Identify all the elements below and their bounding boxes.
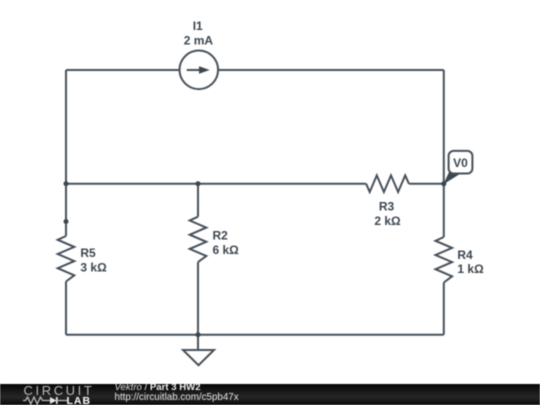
wire middle rail right of R3 <box>409 183 444 185</box>
wire left rail lower segment <box>65 282 67 335</box>
svg-text:2 mA: 2 mA <box>184 34 214 48</box>
junction dot node A (left rail / middle rail) <box>64 181 69 186</box>
current source I1 <box>180 51 219 90</box>
wire right rail lower segment <box>443 283 445 335</box>
svg-text:R2: R2 <box>213 228 229 242</box>
resistor R2 (vertical) <box>190 217 207 262</box>
svg-text:I1: I1 <box>193 19 203 33</box>
wire bottom rail <box>66 334 444 336</box>
wire ground stub <box>197 335 199 350</box>
footer title Vektro / Part 3 HW2 <box>115 382 201 393</box>
svg-text:R5: R5 <box>80 246 96 260</box>
svg-text:R4: R4 <box>457 248 473 262</box>
wire R2 top lead <box>197 184 199 217</box>
CircuitLab logo wordmark CIRCUIT <box>24 383 95 398</box>
svg-text:3 kΩ: 3 kΩ <box>80 261 107 275</box>
svg-text:1 kΩ: 1 kΩ <box>457 262 484 276</box>
wire left rail upper segment <box>65 70 67 236</box>
CircuitLab logo wordmark LAB <box>67 395 92 405</box>
wire top-left (node A to I1 left terminal) <box>66 69 180 71</box>
footer bar <box>0 384 540 405</box>
footer url <box>115 392 239 403</box>
svg-text:2 kΩ: 2 kΩ <box>374 214 401 228</box>
svg-text:V0: V0 <box>453 156 468 170</box>
CircuitLab logo zigzag and diode icon <box>23 396 68 405</box>
svg-text:6 kΩ: 6 kΩ <box>213 243 240 257</box>
ground <box>183 350 214 365</box>
wire right rail upper segment <box>443 70 445 237</box>
resistor R3 (horizontal) <box>366 175 409 192</box>
junction dot ground (bottom rail) <box>196 332 201 337</box>
wire middle rail left of R3 <box>66 183 366 185</box>
node V0 flag <box>444 151 473 184</box>
junction dot node V0 (right rail / middle rail) <box>441 181 446 186</box>
wire top-right (I1 right terminal to right rail) <box>218 69 444 71</box>
wire R2 bottom lead <box>197 262 199 335</box>
junction dot R2 top (middle rail) <box>196 181 201 186</box>
resistor R4 (vertical) <box>436 237 453 283</box>
svg-text:R3: R3 <box>379 200 395 214</box>
resistor R5 (vertical) <box>58 236 75 282</box>
junction dot R5 top terminal <box>64 219 69 224</box>
